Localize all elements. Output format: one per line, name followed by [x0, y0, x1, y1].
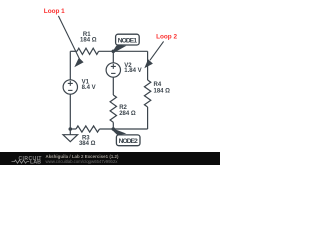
svg-text:LAB: LAB [30, 160, 41, 165]
node NODE2 box [116, 135, 140, 146]
wire R2 to bottom [112, 122, 114, 129]
wire bottom right segment [100, 128, 148, 130]
svg-text:Loop 2: Loop 2 [156, 34, 177, 41]
svg-text:NODE2: NODE2 [119, 138, 139, 145]
resistor R2 [110, 95, 116, 122]
svg-text:184 Ω: 184 Ω [154, 88, 171, 94]
resistor R4 [144, 80, 150, 107]
footer bar [0, 152, 220, 165]
voltage source V1 [63, 80, 77, 94]
node NODE1 box [116, 34, 140, 45]
wire V2 to R2 [112, 77, 114, 95]
svg-text:284 Ω: 284 Ω [119, 111, 136, 117]
wire right branch upper [147, 51, 149, 80]
annotation Loop 2 arrowhead [144, 59, 153, 68]
voltage source V2 [106, 63, 120, 77]
wire left branch upper [69, 51, 71, 80]
wire bottom left segment [70, 128, 76, 130]
node NODE2 pointer wedge [112, 128, 126, 135]
svg-text:Loop 1: Loop 1 [44, 8, 65, 15]
annotation Loop 1 arrowhead [74, 58, 83, 68]
svg-text:www.circuitlab.com/c/qgw6547v9: www.circuitlab.com/c/qgw6547v99b2x [46, 159, 119, 164]
svg-text:184 Ω: 184 Ω [80, 38, 97, 44]
junction dot node1 [112, 50, 116, 54]
ground [63, 129, 78, 142]
junction dot node2 [112, 127, 116, 131]
svg-text:NODE1: NODE1 [118, 37, 138, 44]
wire left branch lower [69, 94, 71, 129]
svg-text:384 Ω: 384 Ω [79, 141, 96, 147]
resistor R1 [77, 48, 99, 54]
wire V2 branch stub [112, 51, 114, 63]
svg-text:1.84 V: 1.84 V [124, 68, 141, 74]
junction dot ground [69, 127, 73, 131]
resistor R3 [76, 126, 100, 132]
wire right branch lower [147, 107, 149, 129]
annotation Loop 1 arrow line [58, 16, 79, 59]
wire top-right segment [99, 50, 148, 52]
node NODE1 pointer wedge [112, 45, 126, 52]
footer CircuitLab logo resistor squiggle [12, 160, 30, 163]
wire top-left segment [70, 50, 77, 52]
annotation Loop 2 arrow line [150, 41, 164, 60]
svg-text:8.4 V: 8.4 V [82, 85, 96, 91]
svg-text:R4: R4 [154, 82, 162, 88]
